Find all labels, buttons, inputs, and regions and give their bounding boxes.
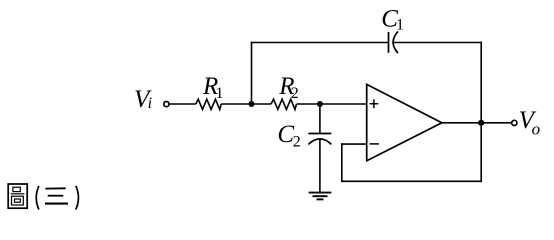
ground [309, 193, 332, 200]
wire top rail left segment to C1 [251, 42, 389, 44]
wire R1 to node A [221, 103, 251, 105]
label R2 [278, 73, 299, 102]
node B junction dot (R2/C2/+input) [317, 101, 323, 107]
svg-text:2: 2 [293, 133, 301, 150]
resistor R1 [196, 99, 221, 109]
wire node C to Vo terminal [481, 122, 511, 124]
wire input terminal to R1 [170, 103, 196, 105]
op-amp U1 [367, 84, 442, 160]
wire feedback right rail node C down to bottom corner [480, 123, 482, 182]
svg-text:o: o [532, 119, 541, 138]
svg-text:1: 1 [216, 85, 224, 102]
node A junction dot (R1/R2/C1) [249, 101, 255, 107]
wire op-amp output to node C [442, 122, 481, 124]
label C2 [277, 121, 300, 150]
capacitor C2 [308, 134, 331, 145]
node C output junction dot [478, 120, 484, 126]
resistor R2 [271, 99, 296, 109]
label Vo [519, 107, 541, 138]
wire node A up to top feedback rail [251, 42, 253, 104]
wire feedback into op-amp minus input [341, 143, 367, 145]
capacitor C1 [389, 31, 399, 53]
wire C2 to ground [319, 139, 321, 192]
svg-text:2: 2 [291, 85, 299, 102]
label R1 [202, 73, 224, 102]
wire right rail down from top corner to output node [480, 42, 482, 123]
wire feedback left rail up to minus level [341, 143, 343, 182]
wire node B down to C2 [319, 104, 321, 134]
label figure caption 圖(三) [8, 184, 78, 210]
wire feedback bottom rail [341, 180, 482, 182]
svg-text:1: 1 [396, 17, 404, 34]
svg-text:i: i [148, 95, 152, 112]
node Vo output terminal [512, 120, 517, 125]
label C1 [381, 6, 404, 34]
node Vi input terminal [164, 102, 169, 107]
wire node B to op-amp + input [320, 103, 367, 105]
label Vi [134, 86, 152, 113]
wire R2 to node B [297, 103, 320, 105]
wire node A to R2 [252, 103, 272, 105]
wire C1 to top-right corner [394, 42, 482, 44]
